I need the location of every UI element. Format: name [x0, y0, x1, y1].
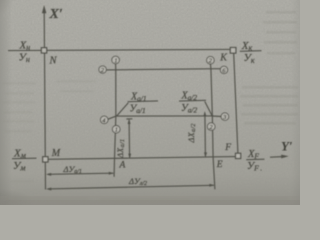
circle 2a (left end of north frame) [99, 66, 106, 74]
fraction Xf/Yf bar [246, 158, 264, 161]
svg-text:M: M [51, 148, 61, 159]
svg-text:A: A [119, 161, 126, 171]
node M marker [43, 157, 48, 162]
leader from fraction 2 to corner 2 [205, 102, 212, 116]
svg-text:Ха/2: Ха/2 [181, 91, 198, 103]
node F marker [236, 153, 241, 158]
circle 6 (right end of north frame) [220, 66, 227, 74]
ink drawing [8, 5, 293, 191]
circle 3 (right end of south frame) [221, 113, 229, 121]
Y' axis arrow [270, 156, 285, 159]
circle 1b (west line, below corner) [112, 126, 120, 134]
node K marker [230, 48, 236, 54]
vertical dimension dXa/1 line [128, 120, 131, 158]
vertical dimension dXa/2 line [204, 113, 207, 157]
circle 2 (top, east line) [207, 56, 215, 64]
fraction Xm/Ym bar [12, 157, 37, 160]
svg-text:N: N [49, 56, 58, 67]
svg-text:Уа/2: Уа/2 [181, 103, 197, 115]
inner rectangle top edge (sheet north frame, with leaders to circles) [106, 69, 220, 70]
tick at top of dXa/1 [126, 118, 132, 120]
X' axis arrowhead [42, 5, 47, 13]
circle 1 (top, west line) [112, 56, 120, 64]
svg-text:1: 1 [114, 57, 117, 64]
fraction Xa/2 Ya/2 bar [179, 99, 206, 102]
svg-text:3: 3 [222, 114, 227, 121]
svg-text:F: F [224, 143, 231, 153]
fraction Xa/1 Ya/1 bar [128, 100, 158, 103]
right outer line K-F [234, 53, 238, 153]
svg-text:Y′: Y′ [281, 139, 293, 154]
leader from fraction 1 to corner 1 [117, 103, 128, 116]
horizontal dimension dYa/2 line [48, 185, 214, 189]
east frame line 2 (through corner 2 down to E and dimension tick) [210, 64, 214, 189]
top line N-K (with left extension acting as fraction bar of N) [8, 49, 230, 50]
horizontal dimension dYa/1 line [48, 173, 114, 174]
svg-text:K: K [219, 52, 228, 63]
west frame line 1 (through corner 1 down to A) [114, 64, 116, 177]
circle 4 (left end of south frame) [100, 116, 108, 124]
circle 2b (east line, below corner) [207, 123, 215, 131]
X' axis (vertical line through N and M) [44, 10, 45, 190]
leader to circle 4 (bottom-left) [108, 116, 116, 119]
svg-text:Ха/1: Ха/1 [130, 91, 147, 103]
node N marker [41, 48, 46, 53]
fraction Xk/Yk bar [240, 50, 262, 53]
leader to circle 3 (bottom-right) [212, 115, 221, 118]
svg-text:1: 1 [115, 127, 118, 134]
svg-text:X′: X′ [49, 7, 63, 22]
bottom line M-F (Y' axis part) [48, 157, 236, 160]
svg-text:ХF: ХF [247, 149, 259, 161]
svg-text:Уа/1: Уа/1 [130, 104, 146, 116]
inner rectangle bottom edge (sheet south frame) [116, 115, 213, 117]
svg-text:E: E [216, 160, 223, 170]
